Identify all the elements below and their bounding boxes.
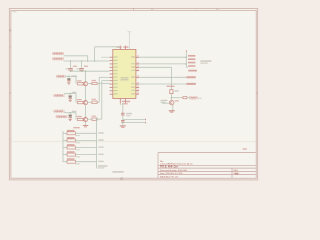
svg-text:C:\Docs\AVR\Schematics\ctrl_bd: C:\Docs\AVR\Schematics\ctrl_bd.sch (160, 163, 193, 166)
svg-text:Date: 2/14/2013 3:57 PM: Date: 2/14/2013 3:57 PM (160, 172, 183, 175)
svg-text:SACA Mech Pte Ltd: SACA Mech Pte Ltd (160, 175, 178, 178)
svg-text:Document Number: SCH-0041: Document Number: SCH-0041 (160, 169, 188, 172)
svg-text:File:: File: (160, 161, 164, 163)
svg-text:TITLE: AVR_Ctrl: TITLE: AVR_Ctrl (160, 166, 178, 169)
